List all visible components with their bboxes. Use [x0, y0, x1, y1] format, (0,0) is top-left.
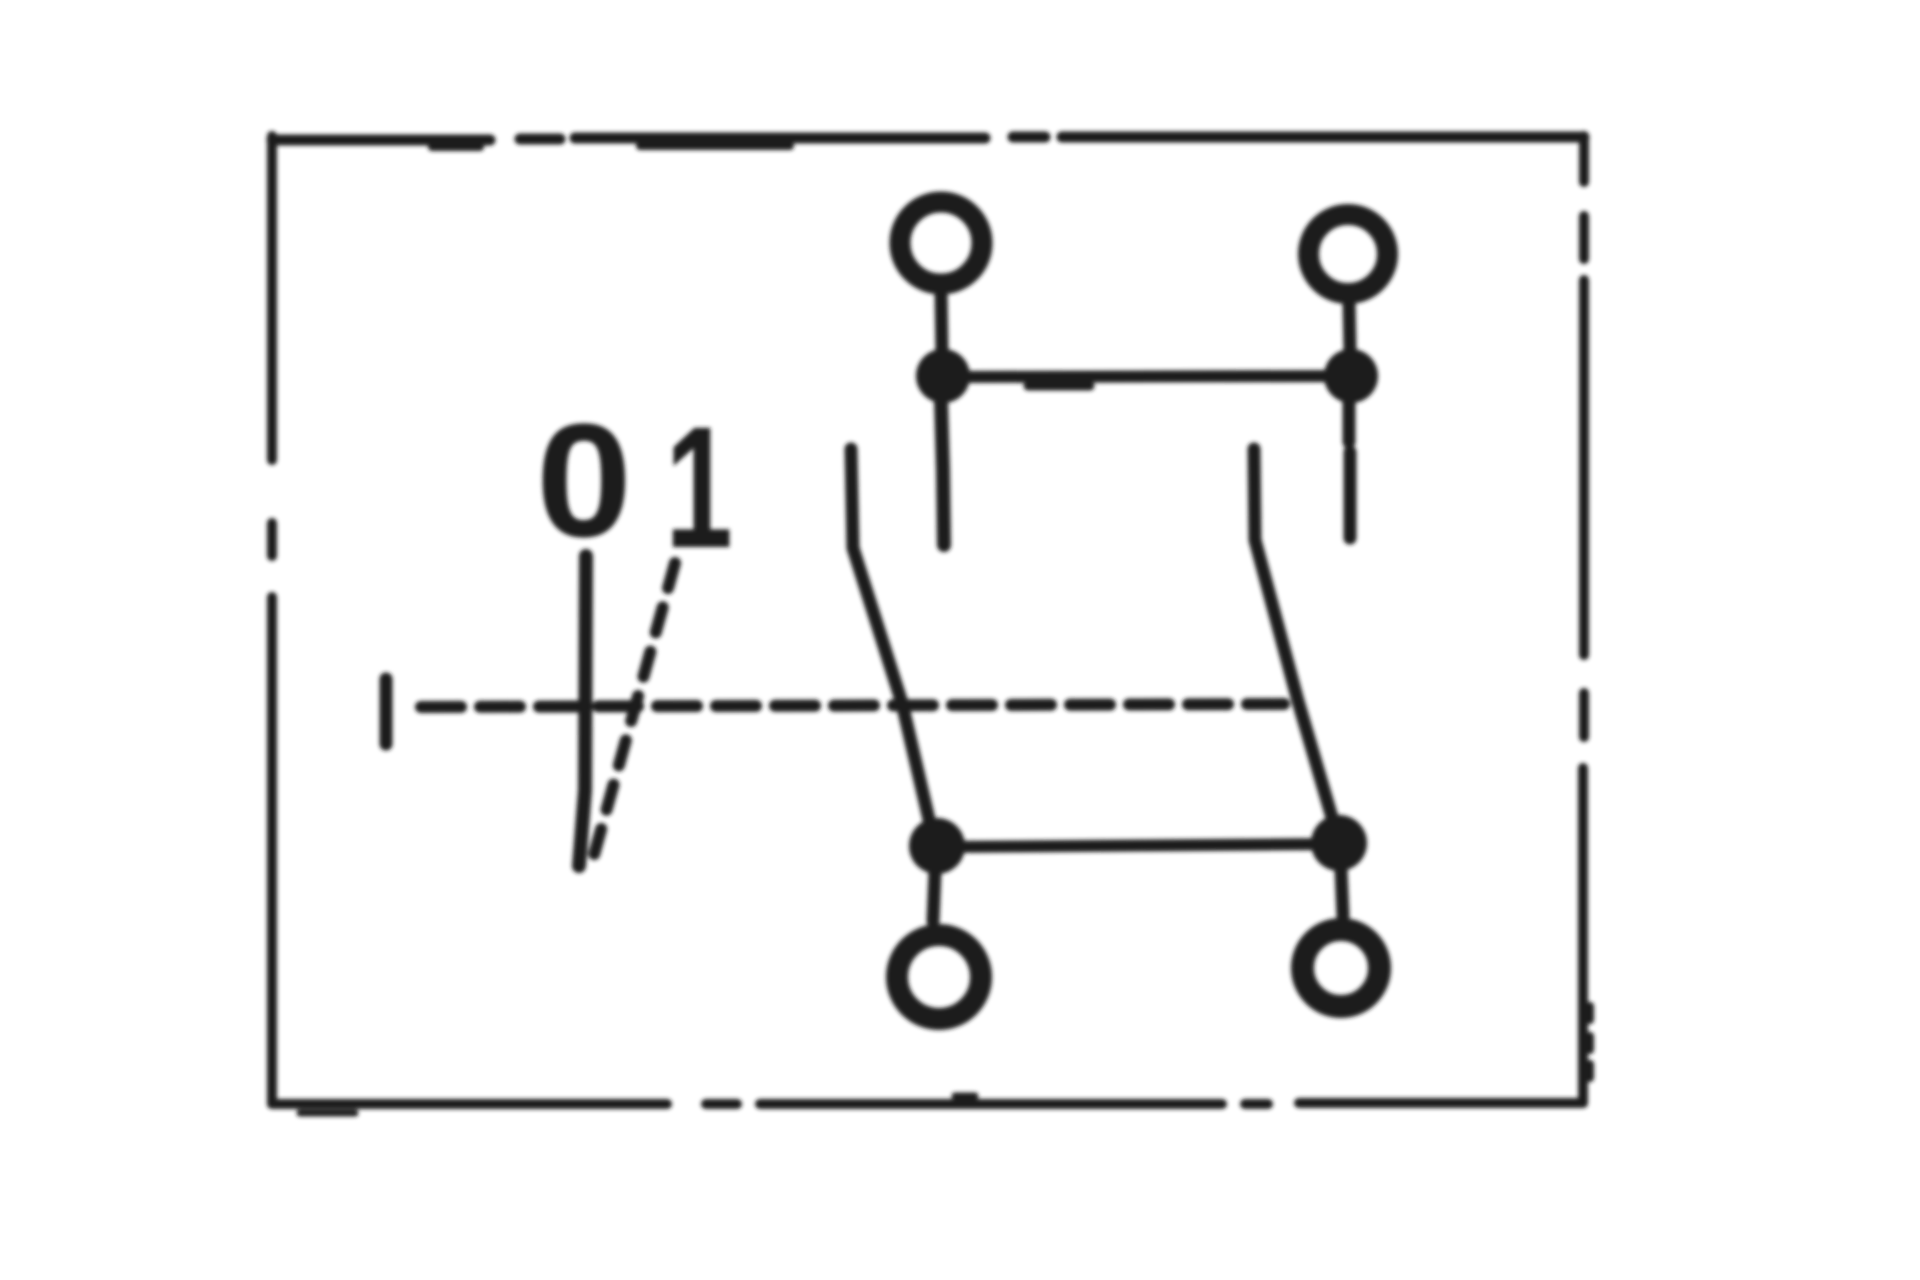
wire: bottom horizontal link between junction dots: [940, 844, 1338, 847]
wire: stem from bottom-right junction to terminal: [1341, 869, 1343, 916]
actuator lever alternate (position 1, dashed): [594, 563, 675, 855]
enclosure border top (dash-dot): [272, 137, 1584, 147]
mechanical linkage end tick: [380, 679, 393, 744]
junction dot bottom-left: [909, 818, 965, 874]
actuator lever (position 0, solid): [579, 556, 586, 866]
terminal circle top-right: [1309, 215, 1388, 294]
junction dot top-right: [1324, 349, 1378, 403]
wire: stem from bottom-left junction to terminal: [933, 872, 935, 921]
enclosure border bottom (dash-dot): [272, 1096, 1583, 1113]
terminal circle bottom-left: [897, 935, 981, 1019]
wire: top horizontal link between junction dots: [943, 376, 1351, 377]
wire: stem from top-left terminal to junction: [941, 290, 942, 352]
junction dot bottom-right: [1311, 815, 1367, 871]
mechanical linkage dashed line: [421, 704, 1284, 707]
wire: stem from top-right terminal to junction: [1349, 301, 1350, 350]
switch blade pole 2 (right movable contact): [1254, 449, 1338, 838]
enclosure border right (dash-dot): [1583, 136, 1590, 1103]
junction dot top-left: [916, 349, 970, 403]
terminal circle top-left: [900, 202, 982, 284]
fixed contact pin below top-right junction: [1349, 400, 1350, 538]
wire echo artifact under top link: [1028, 382, 1090, 391]
fixed contact pin below top-left junction: [941, 400, 944, 545]
terminal circle bottom-right: [1303, 930, 1380, 1007]
svg-text:1: 1: [665, 391, 732, 584]
svg-text:0: 0: [536, 391, 632, 570]
switch blade pole 1 (left movable contact): [851, 449, 934, 841]
enclosure border left (dash-dot): [267, 136, 277, 1104]
